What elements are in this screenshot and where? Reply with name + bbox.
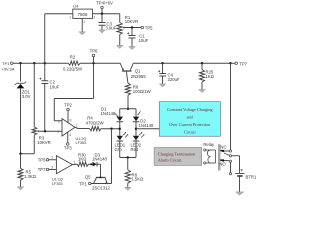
svg-text:TP5: TP5 — [145, 25, 153, 30]
node TP7 output test point — [231, 61, 248, 66]
resistor R30 1K — [77, 153, 88, 167]
svg-text:TP6: TP6 — [90, 49, 98, 54]
svg-text:TP3: TP3 — [64, 146, 72, 151]
resistor R5 1.3K — [18, 154, 36, 181]
wire R30 to D3 — [89, 163, 93, 165]
ground below U4 — [79, 32, 86, 35]
diode D1 1N4148 — [101, 106, 124, 122]
relay NO contact — [219, 159, 231, 174]
svg-text:3: 3 — [93, 16, 95, 20]
svg-text:3.9uF: 3.9uF — [106, 26, 117, 31]
node TP4 +6V test point — [96, 1, 113, 15]
svg-text:LF353: LF353 — [76, 141, 87, 145]
svg-text:BTR1: BTR1 — [246, 175, 257, 180]
wire feedback from TP6 node to op-amp U1:2 pin 6 — [54, 63, 93, 121]
diode D2 1N4148 — [133, 111, 154, 128]
annotation box constant voltage charging circuit — [159, 102, 220, 137]
wire R3 bottom to zener node — [19, 135, 34, 155]
svg-text:4: 4 — [69, 133, 71, 137]
ground below R25 — [199, 82, 206, 93]
node TP5 reference test point — [141, 25, 153, 30]
node TP1 test point at Q5 — [79, 182, 91, 187]
svg-text:D1: D1 — [101, 106, 107, 111]
wire from rail down to R3 — [32, 63, 36, 127]
wire op-amp U1:2 output pin 7 — [75, 127, 90, 128]
svg-text:1KΩ: 1KΩ — [78, 157, 86, 162]
node TP7 input test point — [38, 167, 57, 172]
wire rail corner down to R1 — [118, 14, 122, 23]
svg-text:Constant Voltage Charging: Constant Voltage Charging — [167, 107, 214, 112]
svg-text:10uF: 10uF — [139, 38, 149, 43]
svg-text:R5: R5 — [26, 169, 32, 174]
svg-text:Over Current Protection: Over Current Protection — [169, 122, 211, 127]
svg-text:1KΩ: 1KΩ — [206, 74, 214, 79]
resistor R3 10KVR potentiometer — [32, 127, 51, 145]
wire D1 cathode to LED1 — [118, 122, 122, 136]
svg-text:Grn: Grn — [115, 147, 123, 152]
svg-text:1: 1 — [74, 160, 76, 164]
svg-text:Red: Red — [131, 147, 139, 152]
svg-text:2: 2 — [84, 20, 86, 24]
svg-text:5: 5 — [57, 130, 59, 134]
svg-text:2SC1312: 2SC1312 — [92, 186, 110, 191]
resistor R6 100ohm 1W — [125, 77, 150, 96]
ground below C3 — [99, 25, 106, 33]
svg-text:ZD1: ZD1 — [22, 89, 31, 94]
svg-text:3: 3 — [51, 165, 53, 169]
relay NC contact — [220, 144, 231, 152]
svg-text:Relay: Relay — [203, 142, 215, 147]
wire branch to D1 and D2 — [120, 109, 136, 117]
resistor R8 1.5K — [125, 158, 143, 184]
svg-text:and: and — [187, 114, 194, 119]
zener diode ZD1 3.0V — [15, 82, 31, 99]
svg-text:U4: U4 — [73, 4, 79, 9]
wire R6 bottom to diode branch — [127, 95, 129, 110]
wire C2 bottom down to pin5 net — [43, 84, 47, 132]
wire R1 bottom to ground — [118, 35, 122, 46]
svg-text:2: 2 — [51, 156, 53, 160]
wire Q5 collector riser — [110, 129, 114, 184]
svg-text:6: 6 — [58, 119, 60, 123]
node TP5 input test point — [38, 158, 57, 163]
svg-text:1N4148: 1N4148 — [92, 156, 108, 161]
svg-text:10uF: 10uF — [50, 84, 60, 89]
svg-text:1N4148: 1N4148 — [101, 111, 117, 116]
node TP2 test point above op-amp — [64, 103, 72, 123]
svg-text:R6: R6 — [133, 84, 139, 89]
node junction dots on +9V rail — [19, 62, 231, 64]
op-amp U1:2 LF353 — [57, 119, 86, 145]
wire U4 pin 3 output — [93, 12, 120, 16]
wire R3 wiper to op-amp pin 5 — [37, 130, 62, 132]
svg-text:10KVR: 10KVR — [37, 140, 50, 145]
svg-text:+9V,3A: +9V,3A — [2, 67, 15, 72]
svg-text:0.22Ω/5W: 0.22Ω/5W — [63, 67, 82, 72]
battery BTR1 — [235, 169, 257, 192]
svg-text:1: 1 — [69, 16, 71, 20]
svg-text:1N4148: 1N4148 — [139, 123, 155, 128]
node TP1 +9V input test point — [2, 61, 15, 72]
op-amp U1:1 LF353 — [51, 156, 75, 187]
svg-text:TP5: TP5 — [38, 158, 46, 163]
svg-text:470Ω/2W: 470Ω/2W — [86, 120, 104, 125]
wire D2 node to block — [135, 128, 160, 130]
svg-text:C1: C1 — [139, 33, 145, 38]
svg-text:220uF: 220uF — [168, 77, 180, 82]
relay common armature to battery — [224, 153, 240, 173]
svg-text:TP1: TP1 — [2, 61, 10, 66]
svg-text:NC: NC — [220, 144, 226, 149]
ground below R8 — [125, 183, 132, 190]
svg-text:8: 8 — [70, 119, 72, 123]
wire LED bottoms joined — [120, 141, 136, 158]
svg-text:TP7: TP7 — [239, 61, 247, 66]
LED LED1 green — [115, 132, 129, 152]
svg-text:TP4/+6V: TP4/+6V — [96, 1, 113, 6]
svg-text:1.5KΩ: 1.5KΩ — [131, 177, 143, 182]
svg-text:U1:1Q: U1:1Q — [52, 178, 63, 182]
svg-text:Q1: Q1 — [135, 69, 141, 74]
svg-text:Q5: Q5 — [85, 174, 91, 179]
ground below R5 — [17, 180, 24, 190]
wire D3 to Q5 base — [97, 164, 101, 177]
svg-text:TP2: TP2 — [64, 103, 72, 108]
resistor R2 0.22ohm 5W — [63, 55, 82, 72]
annotation box charging termination alarm circuit — [154, 147, 202, 165]
node TP3 test point below op-amp — [64, 132, 72, 151]
wire op-amp output row to D1 node — [101, 128, 121, 130]
svg-text:100Ω/1W: 100Ω/1W — [133, 89, 151, 94]
svg-text:7806: 7806 — [77, 12, 88, 17]
svg-text:2N2955: 2N2955 — [131, 74, 147, 79]
svg-text:R2: R2 — [70, 55, 76, 60]
transistor Q5 2SC1312 — [85, 174, 111, 190]
ground below C1 — [129, 38, 136, 50]
svg-text:C2: C2 — [50, 80, 56, 85]
svg-text:C4: C4 — [168, 73, 174, 78]
svg-text:3.0V: 3.0V — [22, 94, 31, 99]
svg-text:TP1: TP1 — [79, 182, 87, 187]
transistor Q1 2N2955 — [120, 63, 146, 79]
svg-text:U1:2Q: U1:2Q — [76, 137, 87, 141]
wire U4 pin 2 to ground — [80, 19, 84, 32]
regulator U4 7806 — [69, 4, 95, 24]
svg-text:D2: D2 — [140, 118, 146, 123]
relay coil — [203, 142, 215, 164]
wire D2 cathode to LED2 — [134, 122, 138, 136]
ground below C4 — [159, 76, 166, 87]
ground below battery — [236, 192, 244, 195]
svg-text:10KVR: 10KVR — [125, 19, 138, 24]
wire zener branch down from rail — [19, 63, 23, 81]
capacitor C1 10uF — [127, 28, 149, 43]
LED LED2 red — [131, 132, 145, 152]
resistor R25 1K — [200, 63, 214, 82]
node TP6 test point — [90, 49, 98, 64]
wire +9V rail — [13, 61, 231, 65]
capacitor C4 220uF — [158, 63, 180, 82]
wire riser from rail up to U4 pin 1 — [45, 14, 73, 64]
svg-text:Charging Termination: Charging Termination — [158, 151, 196, 156]
svg-text:Circuit: Circuit — [184, 129, 197, 134]
relay armature bar — [218, 144, 220, 170]
svg-text:LF353: LF353 — [52, 182, 63, 186]
wire output down to relay NC contact — [229, 63, 233, 150]
wire zener anode down to node — [19, 89, 23, 154]
resistor R4 470ohm 2W — [86, 116, 104, 131]
svg-text:R4: R4 — [87, 116, 93, 121]
svg-text:TP7: TP7 — [38, 167, 46, 172]
capacitor C3 3.9uF — [99, 14, 117, 31]
svg-text:Alarm Circuit: Alarm Circuit — [158, 157, 183, 162]
wire R1 wiper to TP5 — [123, 26, 141, 28]
wire U1:1 output pin 1 — [73, 162, 78, 166]
wire Q5 emitter row — [91, 182, 112, 186]
svg-text:1.3KΩ: 1.3KΩ — [24, 174, 36, 179]
capacitor C2 10uF — [39, 63, 59, 89]
diode D3 1N4148 — [92, 152, 108, 166]
resistor R1 10KVR potentiometer — [117, 15, 138, 35]
svg-text:NO: NO — [219, 161, 226, 166]
ground below R1 — [116, 45, 123, 48]
